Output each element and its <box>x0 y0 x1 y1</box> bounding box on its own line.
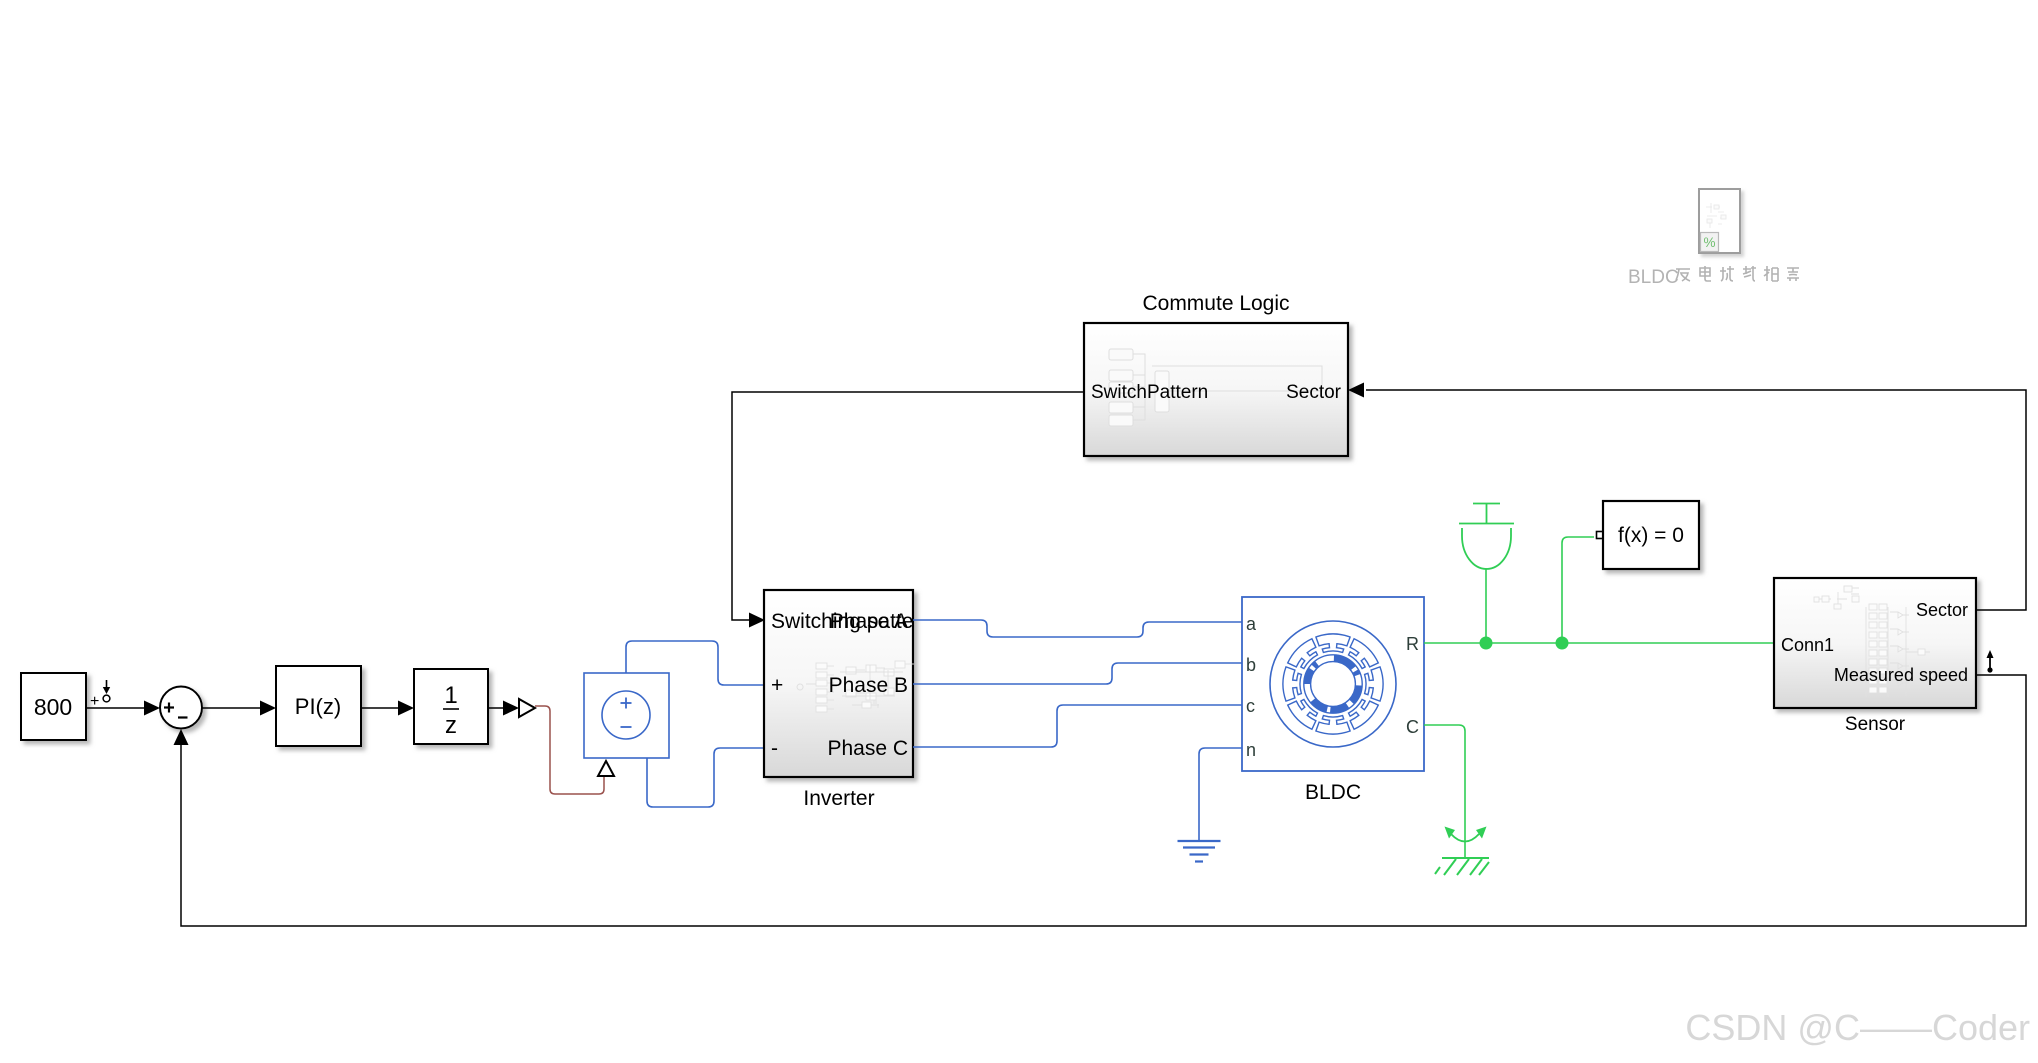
constant block 800 <box>21 673 86 740</box>
svg-text:Measured speed: Measured speed <box>1834 665 1968 685</box>
sensor port labels <box>1781 600 1968 685</box>
PS port triangle of source <box>598 761 614 776</box>
junction dot 1 <box>1480 637 1493 650</box>
junction dot 2 <box>1556 637 1569 650</box>
svg-text:+: + <box>90 693 99 710</box>
commute preview sketch <box>1109 349 1322 426</box>
percent badge <box>1701 233 1719 252</box>
inverter subsystem block <box>764 590 913 777</box>
gain (small triangle) <box>519 699 535 717</box>
svg-text:Commute Logic: Commute Logic <box>1142 292 1289 315</box>
svg-text:n: n <box>1246 740 1256 760</box>
PS converter wire (brown) gain to source port <box>535 706 604 794</box>
svg-text:PI(z): PI(z) <box>295 694 341 719</box>
wire phase A to a <box>913 620 1242 637</box>
svg-text:Phase A: Phase A <box>830 610 908 633</box>
svg-text:1: 1 <box>444 682 457 709</box>
svg-text:z: z <box>445 712 457 739</box>
svg-text:R: R <box>1406 634 1419 654</box>
svg-text:C: C <box>1406 717 1419 737</box>
wire phase B to b <box>913 663 1242 684</box>
svg-text:Phase C: Phase C <box>827 737 908 760</box>
f(x)=0 solver block <box>1597 501 1700 569</box>
svg-text:f(x) = 0: f(x) = 0 <box>1618 524 1684 547</box>
BLDC port labels <box>1246 614 1419 760</box>
sensor subsystem block <box>1774 578 1976 708</box>
svg-text:BLDC: BLDC <box>1305 781 1361 804</box>
svg-text:SwitchPattern: SwitchPattern <box>1091 382 1208 403</box>
svg-text:Sensor: Sensor <box>1845 714 1906 735</box>
svg-text:CSDN @C——Coder: CSDN @C——Coder <box>1685 1007 2030 1048</box>
motion sensor branch wire <box>1485 568 1487 643</box>
unit delay 1/z <box>414 669 488 744</box>
svg-text:c: c <box>1246 696 1255 716</box>
wire source- to inverter - <box>647 748 765 807</box>
wire n to electrical ground <box>1199 748 1242 841</box>
svg-text:Conn1: Conn1 <box>1781 635 1834 655</box>
svg-text:a: a <box>1246 614 1257 634</box>
rotation arrows <box>1445 827 1487 842</box>
sensor preview sketch <box>1814 586 1930 697</box>
sum junction <box>160 687 202 729</box>
commute port labels <box>1091 382 1342 403</box>
svg-text:BLDC: BLDC <box>1628 267 1679 288</box>
svg-text:800: 800 <box>34 694 72 720</box>
svg-text:Phase B: Phase B <box>829 674 908 697</box>
wire phase C to c <box>913 705 1242 747</box>
commute logic subsystem block <box>1084 323 1348 456</box>
rotational motion sensor icon <box>1459 504 1514 570</box>
wire C to rotational reference <box>1424 725 1465 858</box>
mechanical rotational reference <box>1435 858 1489 875</box>
feedback wire measured speed to sum <box>174 675 2027 926</box>
svg-text:%: % <box>1703 235 1715 250</box>
wire PI(z) to 1/z <box>361 701 414 716</box>
svg-text:b: b <box>1246 655 1256 675</box>
green wire R to Conn1 <box>1424 642 1774 644</box>
svg-text:Inverter: Inverter <box>803 787 874 810</box>
BLDC motor icon <box>1270 621 1396 747</box>
wire 1/z to gain <box>488 701 519 716</box>
wire 800 to sum <box>86 701 160 716</box>
wire sum to PI(z) <box>202 701 276 716</box>
commented-out block (BLDC back-EMF detection) <box>1699 189 1740 253</box>
PI(z) discrete PID controller <box>276 666 361 746</box>
wire sensor Sector to commute Sector <box>1348 383 2026 611</box>
svg-text:Sector: Sector <box>1916 600 1968 620</box>
inverter port labels <box>771 610 932 760</box>
svg-text:-: - <box>771 737 778 760</box>
svg-text:Sector: Sector <box>1286 382 1342 403</box>
wire junction2 to f(x)=0 <box>1562 537 1594 643</box>
BLDC motor block <box>1242 597 1424 771</box>
wire commute SwitchPattern to inverter input <box>732 392 1084 628</box>
svg-text:+: + <box>771 674 783 697</box>
electrical ground <box>1178 841 1221 862</box>
inverter preview sketch <box>797 661 914 712</box>
signal dimension marker <box>1987 650 1994 673</box>
test point marker <box>90 680 110 710</box>
controlled voltage source block <box>584 673 669 758</box>
wire source+ to inverter + <box>626 641 765 685</box>
